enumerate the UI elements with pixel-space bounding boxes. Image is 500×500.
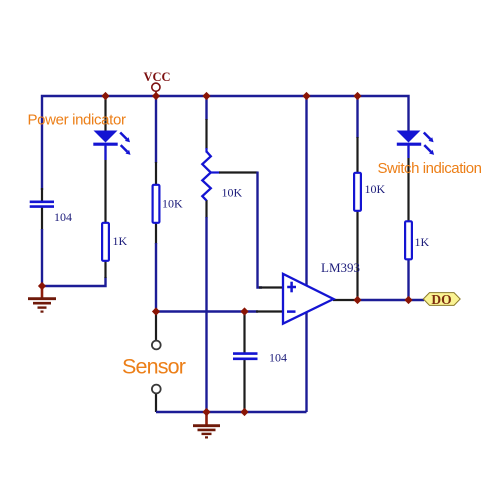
net flag DO	[423, 292, 460, 307]
junction node mid column top	[302, 92, 310, 100]
wire sensor pin 2 to bottom rail	[155, 394, 157, 413]
junction node output R4	[404, 296, 412, 304]
junction node C2 top	[240, 307, 248, 315]
junction node pot top	[202, 92, 210, 100]
wire VCC column to R1	[155, 96, 157, 163]
wire pot wiper to op-amp plus input	[211, 171, 221, 173]
wire R3 bottom to output	[356, 212, 358, 301]
wire minus node to sensor pin 1	[155, 312, 157, 341]
wire bottom-left horizontal node to R2	[42, 277, 106, 286]
junction node output R3	[353, 296, 361, 304]
wire middle column through op-amp	[305, 96, 307, 412]
op-amp U1 LM393	[283, 274, 334, 324]
svg-text:10K: 10K	[365, 182, 386, 196]
wire minus input horizontal	[156, 310, 258, 312]
svg-text:Switch indication: Switch indication	[378, 160, 482, 177]
wire pot bottom to ground rail	[205, 200, 207, 218]
svg-text:1K: 1K	[113, 234, 128, 248]
resistor R3 10K body	[354, 173, 361, 211]
LED D2 switch	[397, 131, 435, 155]
svg-text:VCC: VCC	[143, 70, 170, 84]
svg-text:10K: 10K	[162, 197, 183, 211]
wire R3 top pin	[356, 96, 358, 138]
terminal sensor pin 2	[152, 385, 161, 394]
potentiometer RP1 zigzag	[202, 152, 211, 201]
resistor R2 1K body	[102, 223, 109, 261]
wire cap C2 top pin	[243, 312, 245, 354]
junction node C2 bottom	[240, 408, 248, 416]
wire R4 bottom to output node	[407, 260, 409, 302]
svg-text:LM393: LM393	[321, 260, 360, 275]
ground GND1 left	[28, 286, 56, 312]
resistor R1 10K body	[153, 185, 160, 223]
svg-text:104: 104	[54, 210, 72, 224]
svg-text:1K: 1K	[415, 235, 430, 249]
ground GND2 bottom	[193, 412, 220, 437]
svg-text:10K: 10K	[222, 186, 243, 200]
svg-text:Sensor: Sensor	[122, 355, 186, 379]
wire cap C2 bottom pin	[243, 359, 245, 412]
wire left column cap pin black upper	[41, 188, 43, 202]
wire pot top pin	[205, 96, 207, 120]
LED D1 power	[93, 131, 130, 155]
wire LED2 cathode to R4	[407, 146, 409, 222]
junction node minus left	[152, 307, 160, 315]
junction node left ground	[38, 282, 46, 290]
svg-text:DO: DO	[431, 292, 451, 307]
capacitor C2 104	[233, 354, 258, 359]
wire LED1 cathode to R2	[104, 146, 106, 223]
junction node R3 top	[353, 92, 361, 100]
capacitor C1 104	[30, 202, 54, 207]
svg-text:Power indicator: Power indicator	[28, 112, 126, 129]
wire top power rail	[42, 96, 409, 190]
wire LED1 anode pin	[104, 96, 106, 131]
resistor R4 1K body	[405, 221, 412, 259]
junction node VCC	[152, 92, 160, 100]
wire op-amp output	[333, 299, 358, 301]
power symbol VCC circle	[152, 83, 160, 91]
wire bottom ground rail	[156, 411, 307, 413]
wire R1 bottom to minus node	[155, 223, 157, 244]
junction node LED1 top	[101, 92, 109, 100]
junction node bottom ground	[202, 408, 210, 416]
wire left column cap to ground node	[41, 206, 43, 230]
terminal sensor pin 1	[152, 341, 161, 350]
svg-text:104: 104	[269, 351, 287, 365]
